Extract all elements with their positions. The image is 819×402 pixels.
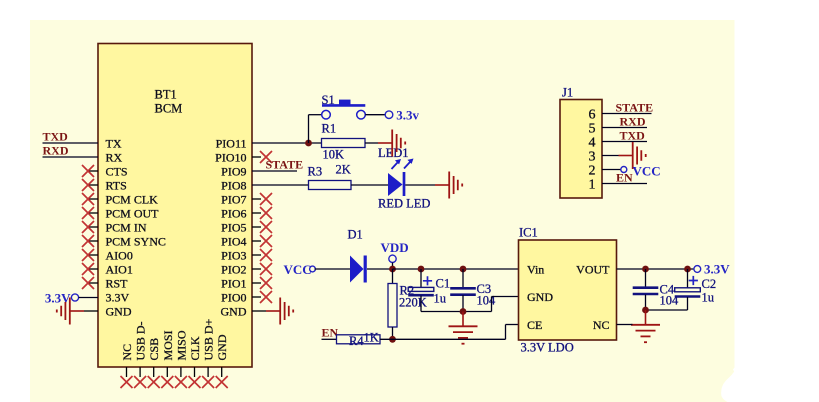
wire J1 pin4 TXD — [602, 141, 647, 143]
svg-text:PIO2: PIO2 — [221, 263, 246, 277]
svg-text:PIO9: PIO9 — [221, 165, 246, 179]
svg-text:PIO4: PIO4 — [221, 235, 246, 249]
svg-text:PCM CLK: PCM CLK — [106, 193, 159, 207]
resistor R2 — [388, 284, 397, 328]
svg-text:EN: EN — [616, 171, 633, 185]
BT1 right pin stub PIO1 — [252, 282, 261, 284]
wire J1 pin2 to VCC — [602, 169, 621, 171]
svg-text:PIO10: PIO10 — [215, 151, 246, 165]
svg-text:BCM: BCM — [155, 102, 183, 116]
power port 3.3V right — [694, 266, 701, 273]
BT1 left pin stub CTS — [88, 170, 98, 172]
ground rail below C1 C3 — [421, 311, 492, 313]
svg-text:PCM IN: PCM IN — [106, 221, 147, 235]
svg-text:R4: R4 — [349, 334, 364, 348]
svg-text:MOSI: MOSI — [161, 330, 175, 360]
svg-text:RTS: RTS — [106, 179, 127, 193]
wire S1 to 3.3v port — [365, 114, 385, 116]
svg-text:VCC: VCC — [284, 262, 312, 277]
svg-text:GND: GND — [527, 290, 553, 304]
BT1 left pin stub RST — [88, 282, 98, 284]
svg-text:AIO1: AIO1 — [106, 263, 133, 277]
no-ERC mark PIO7 — [260, 193, 272, 205]
svg-text:RST: RST — [106, 277, 129, 291]
no-ERC mark PIO2 — [260, 263, 272, 275]
svg-text:IC1: IC1 — [519, 226, 538, 240]
no-ERC mark bottom MISO — [175, 376, 187, 388]
svg-text:AIO0: AIO0 — [106, 249, 133, 263]
BT1 bottom pin stub USB D- — [139, 367, 141, 377]
svg-text:MISO: MISO — [174, 330, 188, 360]
svg-text:3.3V: 3.3V — [704, 262, 730, 277]
svg-text:3.3V: 3.3V — [45, 291, 71, 306]
svg-text:3: 3 — [589, 150, 596, 165]
svg-text:C2: C2 — [702, 277, 717, 291]
svg-text:1: 1 — [589, 178, 596, 193]
junction node C2 — [684, 266, 691, 273]
svg-text:GND: GND — [221, 305, 247, 319]
svg-text:VOUT: VOUT — [576, 263, 610, 277]
BT1 bottom pin stub CLK — [194, 367, 196, 377]
BT1 pin stub PIO10 — [252, 156, 261, 158]
BT1 left pin stub PCM IN — [88, 226, 98, 228]
wire R3 to LED — [351, 184, 388, 186]
svg-text:PIO6: PIO6 — [221, 207, 246, 221]
wire J1 pin3 to ground — [602, 155, 619, 157]
svg-text:J1: J1 — [562, 86, 573, 100]
svg-text:Vin: Vin — [527, 263, 544, 277]
resistor R3 — [309, 181, 352, 190]
no-ERC mark PIO1 — [260, 277, 272, 289]
wire LED to ground — [405, 184, 435, 186]
svg-text:4: 4 — [589, 136, 596, 151]
BT1 right pin stub PIO3 — [252, 254, 261, 256]
svg-text:PCM OUT: PCM OUT — [106, 207, 160, 221]
diode D1 — [350, 256, 364, 283]
svg-text:5: 5 — [589, 122, 596, 137]
wire R1 to ground — [365, 142, 378, 144]
svg-text:GND: GND — [106, 305, 132, 319]
svg-text:104: 104 — [477, 294, 497, 308]
svg-text:PIO7: PIO7 — [221, 193, 246, 207]
svg-text:USB D-: USB D- — [134, 321, 148, 360]
BT1 left pin stub PCM OUT — [88, 212, 98, 214]
BT1 bottom pin stub MOSI — [166, 367, 168, 377]
wire R4 to CE — [380, 338, 506, 340]
no-ERC mark PIO4 — [260, 235, 272, 247]
no-ERC mark on AIO0 — [82, 249, 94, 261]
ground below C1 C3 — [462, 312, 464, 326]
capacitor C2 — [675, 288, 701, 292]
no-ERC mark PIO5 — [260, 221, 272, 233]
svg-text:RED LED: RED LED — [378, 197, 430, 211]
no-ERC mark on RTS — [82, 179, 94, 191]
no-ERC mark on PCM OUT — [82, 207, 94, 219]
junction node VDD — [389, 266, 396, 273]
wire C2 to rail — [687, 297, 689, 310]
BT1 bottom pin stub GND — [221, 367, 223, 377]
BT1 right pin stub PIO5 — [252, 226, 261, 228]
svg-text:R1: R1 — [322, 122, 337, 136]
BT1 right pin stub PIO6 — [252, 212, 261, 214]
no-ERC mark PIO3 — [260, 249, 272, 261]
resistor R1 — [322, 139, 366, 148]
no-ERC mark bottom MOSI — [161, 376, 173, 388]
svg-text:1u: 1u — [702, 291, 715, 305]
BT1 left pin stub AIO1 — [88, 268, 98, 270]
junction node C4 — [642, 266, 649, 273]
wire PIO8 to R3 — [252, 184, 309, 186]
wire VDD to R2 — [392, 269, 394, 284]
capacitor C3 — [450, 287, 476, 290]
wire BT1 GND right — [252, 310, 266, 312]
BT1 bottom pin stub CSB — [153, 367, 155, 377]
svg-text:TXD: TXD — [43, 130, 69, 144]
junction node ground rail — [460, 308, 467, 315]
svg-text:3.3V: 3.3V — [106, 291, 130, 305]
svg-text:TXD: TXD — [620, 129, 646, 143]
svg-text:1K: 1K — [364, 331, 379, 345]
power port VCC at J1 — [621, 167, 627, 173]
wire VOUT to 3.3V port — [617, 268, 695, 270]
wire R2 to EN net — [392, 327, 394, 339]
wire to C1 — [420, 269, 422, 288]
svg-text:STATE: STATE — [266, 158, 304, 172]
svg-text:3.3v: 3.3v — [396, 108, 419, 123]
no-ERC mark on PCM SYNC — [82, 235, 94, 247]
power port 3.3V left — [71, 294, 78, 301]
capacitor C1 — [408, 287, 434, 291]
wire BT1 GND left — [84, 310, 98, 312]
svg-text:RX: RX — [106, 151, 123, 165]
svg-text:2: 2 — [589, 164, 596, 179]
switch S1 — [322, 104, 365, 107]
ground rail below C4 C2 — [646, 309, 688, 311]
BT1 right pin stub PIO4 — [252, 240, 261, 242]
wire rail to IC1 GND — [491, 297, 493, 312]
wire C3 to rail — [462, 295, 464, 312]
junction node C1 — [418, 266, 425, 273]
svg-text:PIO0: PIO0 — [221, 291, 246, 305]
capacitor C4 — [633, 286, 659, 289]
IC BT1 body — [98, 44, 252, 368]
svg-text:USB D+: USB D+ — [202, 318, 216, 360]
svg-text:PIO3: PIO3 — [221, 249, 246, 263]
svg-text:CLK: CLK — [188, 336, 202, 360]
svg-text:TX: TX — [106, 137, 122, 151]
svg-text:NC: NC — [120, 344, 134, 361]
no-ERC mark bottom USB D- — [134, 376, 146, 388]
svg-text:R3: R3 — [308, 165, 323, 179]
wire VCC to D1 — [315, 268, 351, 270]
junction node R2/EN — [389, 336, 396, 343]
svg-text:STATE: STATE — [616, 101, 654, 115]
svg-text:GND: GND — [215, 334, 229, 360]
BT1 right pin stub PIO2 — [252, 268, 261, 270]
no-ERC mark bottom GND — [216, 376, 228, 388]
no-ERC mark bottom NC — [121, 376, 133, 388]
BT1 right pin stub PIO7 — [252, 198, 261, 200]
svg-text:1u: 1u — [434, 292, 447, 306]
svg-text:CE: CE — [527, 318, 542, 332]
no-ERC mark bottom CSB — [148, 376, 160, 388]
ground right of LED1 — [435, 184, 449, 186]
no-ERC mark PIO10 — [260, 151, 272, 163]
BT1 left pin stub AIO0 — [88, 254, 98, 256]
wire 3.3V to BT1 — [79, 297, 98, 299]
svg-text:CTS: CTS — [106, 165, 128, 179]
wire J1 pin5 RXD — [602, 127, 647, 129]
no-ERC mark PIO0 — [260, 291, 272, 303]
BT1 bottom pin stub MISO — [180, 367, 182, 377]
junction node PIO11/S1 — [305, 140, 312, 147]
wire to C4 — [645, 269, 647, 287]
no-ERC mark bottom CLK — [189, 376, 201, 388]
svg-text:220K: 220K — [399, 296, 427, 310]
wire EN to R4 — [322, 338, 337, 340]
svg-text:VDD: VDD — [381, 240, 409, 255]
BT1 left pin stub PCM SYNC — [88, 240, 98, 242]
svg-text:RXD: RXD — [620, 115, 646, 129]
svg-text:3.3V LDO: 3.3V LDO — [521, 341, 574, 355]
IC IC1 body — [519, 240, 617, 340]
no-ERC mark on PCM CLK — [82, 193, 94, 205]
ground right of BT1 — [266, 310, 280, 312]
resistor R4 — [337, 335, 381, 344]
BT1 left pin stub RTS — [88, 184, 98, 186]
svg-text:10K: 10K — [323, 148, 345, 162]
wire C1 to rail — [420, 296, 422, 312]
power port VDD — [389, 255, 396, 262]
ground right of R1 — [378, 142, 392, 144]
wire to C3 — [462, 269, 464, 287]
svg-text:PIO11: PIO11 — [216, 137, 247, 151]
wire J1 pin1 EN — [602, 183, 647, 185]
junction node right ground rail — [642, 307, 649, 314]
no-ERC mark on PCM IN — [82, 221, 94, 233]
svg-text:PIO8: PIO8 — [221, 179, 246, 193]
power port 3.3v top — [385, 111, 393, 119]
wire D1 to VDD node — [367, 268, 393, 270]
ground left of BT1 — [71, 310, 85, 312]
junction node C3 — [460, 266, 467, 273]
svg-text:PCM SYNC: PCM SYNC — [106, 235, 166, 249]
connector J1 body — [560, 100, 602, 199]
svg-text:LED1: LED1 — [378, 146, 409, 160]
ground at J1 pin3 — [619, 155, 633, 157]
no-ERC mark PIO6 — [260, 207, 272, 219]
svg-text:CSB: CSB — [147, 338, 161, 361]
svg-text:PIO5: PIO5 — [221, 221, 246, 235]
wire VDD rail to IC1 Vin — [393, 268, 519, 270]
BT1 bottom pin stub USB D+ — [207, 367, 209, 377]
svg-text:6: 6 — [589, 108, 596, 123]
wire net RXD — [43, 156, 99, 158]
wire up to S1 — [308, 115, 310, 143]
svg-text:VCC: VCC — [633, 164, 661, 179]
BT1 right pin stub PIO0 — [252, 296, 261, 298]
svg-text:RXD: RXD — [43, 144, 69, 158]
svg-text:PIO1: PIO1 — [221, 277, 246, 291]
wire J1 pin6 STATE — [602, 113, 652, 115]
svg-text:D1: D1 — [348, 228, 363, 242]
ground below C4 C2 — [645, 310, 647, 324]
BT1 left pin stub PCM CLK — [88, 198, 98, 200]
svg-text:2K: 2K — [336, 163, 351, 177]
wire IC1 NC to ground — [617, 324, 633, 326]
svg-text:BT1: BT1 — [155, 88, 177, 102]
BT1 bottom pin stub NC — [126, 367, 128, 377]
wire to C2 — [687, 269, 689, 288]
wire PIO11 to R1 — [252, 142, 322, 144]
LED LED1 — [388, 173, 403, 196]
no-ERC mark bottom USB D+ — [202, 376, 214, 388]
wire net TXD — [43, 142, 99, 144]
svg-text:NC: NC — [593, 318, 610, 332]
no-ERC mark on RST — [82, 277, 94, 289]
no-ERC mark on AIO1 — [82, 263, 94, 275]
wire C4 to rail — [645, 295, 647, 311]
wire net STATE — [252, 170, 297, 172]
svg-text:C1: C1 — [436, 277, 451, 291]
no-ERC mark on CTS — [82, 165, 94, 177]
